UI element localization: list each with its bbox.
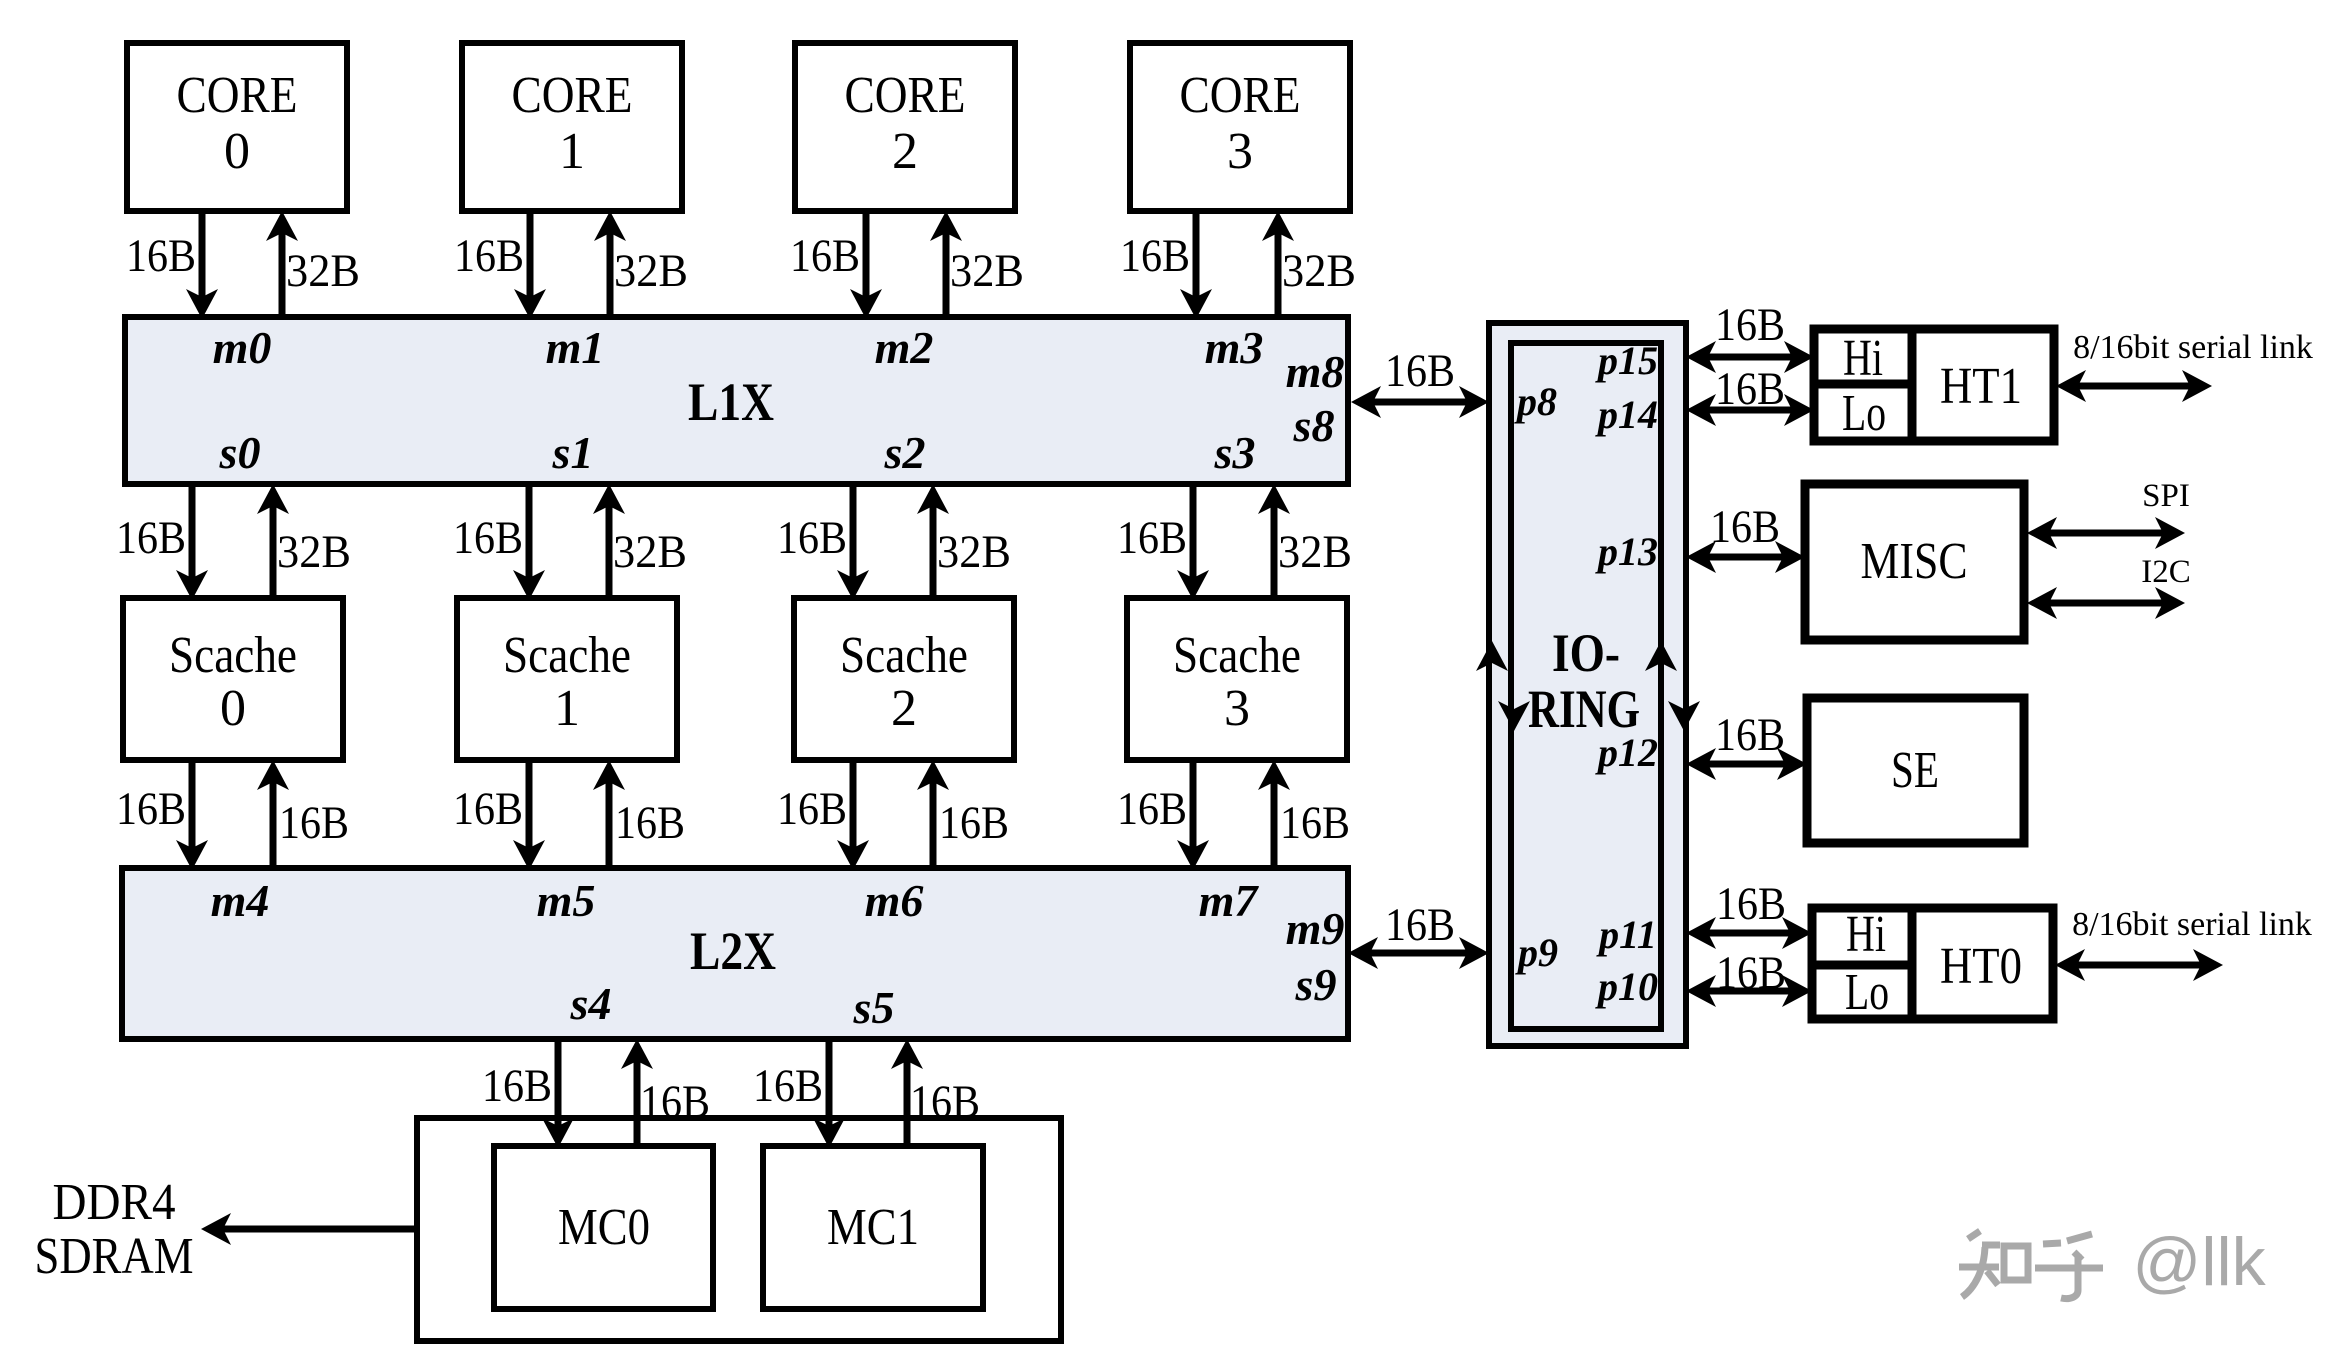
svg-text:Scache: Scache	[840, 627, 968, 684]
wire Scache0 to L2X 16B down	[189, 760, 196, 850]
svg-text:32B: 32B	[277, 526, 351, 578]
svg-text:CORE: CORE	[512, 67, 633, 124]
svg-text:L1X: L1X	[688, 372, 774, 432]
block SE	[1807, 698, 2024, 843]
svg-text:m5: m5	[537, 875, 596, 926]
svg-text:Scache: Scache	[1173, 627, 1301, 684]
block Scache 2	[794, 598, 1014, 760]
svg-text:m2: m2	[875, 322, 934, 373]
block Scache 0	[123, 598, 343, 760]
svg-text:16B: 16B	[1716, 947, 1786, 999]
wire HT0 serial link	[2075, 962, 2203, 969]
svg-text:s2: s2	[884, 427, 926, 478]
svg-text:16B: 16B	[116, 783, 186, 835]
svg-text:p9: p9	[1515, 930, 1558, 975]
block MC1	[763, 1146, 983, 1309]
svg-text:s9: s9	[1295, 959, 1337, 1010]
svg-text:HT1: HT1	[1940, 358, 2022, 415]
svg-text:16B: 16B	[116, 512, 186, 564]
svg-text:16B: 16B	[453, 512, 523, 564]
svg-text:3: 3	[1227, 123, 1253, 180]
svg-text:MISC: MISC	[1861, 533, 1968, 590]
svg-text:32B: 32B	[613, 526, 687, 578]
wire L1X s3 to Scache3 16B down	[1190, 484, 1197, 580]
svg-text:16B: 16B	[1385, 899, 1455, 951]
svg-text:IO-: IO-	[1552, 623, 1620, 683]
svg-text:Hi: Hi	[1846, 906, 1886, 963]
wire L1X to CORE0 32B up	[279, 231, 286, 317]
svg-text:16B: 16B	[1710, 501, 1780, 553]
wire IO-RING p10 to HT0 Lo 16B	[1706, 988, 1792, 995]
block CORE 0	[127, 43, 347, 211]
ring arrow down inner-left	[1498, 701, 1530, 731]
wire L1X to CORE3 32B up	[1275, 231, 1282, 317]
svg-text:p13: p13	[1595, 529, 1658, 574]
wire IO-RING p11 to HT0 Hi 16B	[1706, 930, 1792, 937]
ring arrow up left	[1476, 641, 1508, 671]
wire CORE0 to L1X 16B down	[199, 211, 206, 299]
svg-text:2: 2	[891, 680, 917, 737]
svg-text:16B: 16B	[777, 512, 847, 564]
wire Scache3 to L1X 32B up	[1271, 504, 1278, 598]
svg-text:@llk: @llk	[2132, 1224, 2266, 1300]
svg-text:SE: SE	[1891, 742, 1939, 799]
wire IO-RING p12 to SE 16B	[1706, 761, 1787, 768]
svg-text:CORE: CORE	[1180, 67, 1301, 124]
wire L1X m8/s8 to IO-RING p8 16B	[1371, 399, 1469, 406]
svg-text:16B: 16B	[753, 1060, 823, 1112]
block IO-RING inner	[1511, 343, 1661, 1029]
block MC0	[494, 1146, 713, 1309]
svg-text:16B: 16B	[1715, 299, 1785, 351]
svg-text:s8: s8	[1293, 400, 1335, 451]
wire L2X to Scache2 16B up	[930, 780, 937, 868]
svg-text:m9: m9	[1286, 903, 1345, 954]
svg-text:p15: p15	[1595, 338, 1658, 383]
svg-text:16B: 16B	[777, 783, 847, 835]
svg-text:16B: 16B	[453, 783, 523, 835]
wire Scache0 to L1X 32B up	[270, 504, 277, 598]
svg-text:HT0: HT0	[1940, 938, 2022, 995]
block IO-RING outer	[1489, 323, 1686, 1046]
wire L2X to Scache0 16B up	[270, 780, 277, 868]
crossbar L2X	[122, 868, 1348, 1039]
svg-text:16B: 16B	[790, 230, 860, 282]
svg-text:Hi: Hi	[1843, 330, 1883, 387]
svg-text:32B: 32B	[950, 245, 1024, 297]
svg-text:32B: 32B	[614, 245, 688, 297]
svg-text:s5: s5	[853, 982, 895, 1033]
svg-text:16B: 16B	[1716, 878, 1786, 930]
svg-text:16B: 16B	[1280, 797, 1350, 849]
svg-text:p12: p12	[1595, 730, 1658, 775]
svg-text:m8: m8	[1286, 346, 1345, 397]
svg-text:3: 3	[1224, 680, 1250, 737]
wire Scache1 to L2X 16B down	[526, 760, 533, 850]
svg-text:16B: 16B	[1715, 363, 1785, 415]
svg-text:8/16bit serial link: 8/16bit serial link	[2072, 906, 2312, 943]
wire IO-RING p13 to MISC 16B	[1706, 554, 1785, 561]
wire L2X to Scache3 16B up	[1271, 780, 1278, 868]
wire L1X s0 to Scache0 16B down	[189, 484, 196, 580]
wire L1X s1 to Scache1 16B down	[526, 484, 533, 580]
wire HT1 serial link	[2076, 383, 2192, 390]
svg-text:16B: 16B	[1715, 709, 1785, 761]
wire SPI	[2047, 530, 2165, 537]
wire L1X to CORE2 32B up	[943, 231, 950, 317]
svg-text:16B: 16B	[279, 797, 349, 849]
svg-text:p11: p11	[1596, 912, 1657, 957]
svg-text:16B: 16B	[454, 230, 524, 282]
wire Scache3 to L2X 16B down	[1190, 760, 1197, 850]
svg-text:CORE: CORE	[177, 67, 298, 124]
svg-text:s4: s4	[570, 978, 612, 1029]
svg-text:p8: p8	[1514, 379, 1557, 424]
svg-text:16B: 16B	[1117, 512, 1187, 564]
wire L1X to CORE1 32B up	[607, 231, 614, 317]
svg-text:16B: 16B	[1385, 345, 1455, 397]
svg-text:1: 1	[559, 123, 585, 180]
svg-text:CORE: CORE	[845, 67, 966, 124]
svg-text:32B: 32B	[286, 245, 360, 297]
svg-text:Scache: Scache	[169, 627, 297, 684]
svg-text:Lo: Lo	[1842, 385, 1886, 442]
svg-text:MC0: MC0	[558, 1199, 650, 1256]
block Scache 1	[457, 598, 677, 760]
block Scache 3	[1127, 598, 1347, 760]
svg-text:p10: p10	[1595, 964, 1658, 1009]
block HT0	[1812, 908, 2053, 1019]
wire IO-RING p15 to HT1 Hi 16B	[1706, 354, 1794, 361]
svg-text:0: 0	[220, 680, 246, 737]
block CORE 3	[1130, 43, 1350, 211]
svg-text:8/16bit serial link: 8/16bit serial link	[2073, 329, 2313, 366]
block MISC	[1805, 484, 2024, 640]
wire I2C	[2047, 600, 2165, 607]
wire CORE3 to L1X 16B down	[1193, 211, 1200, 299]
wire IO-RING p14 to HT1 Lo 16B	[1706, 407, 1794, 414]
svg-text:16B: 16B	[615, 797, 685, 849]
ring arrow up inner-right	[1645, 641, 1677, 671]
wire to DDR4 SDRAM	[221, 1226, 417, 1233]
svg-text:16B: 16B	[1117, 783, 1187, 835]
wire Scache1 to L1X 32B up	[606, 504, 613, 598]
svg-text:m0: m0	[213, 322, 272, 373]
svg-text:16B: 16B	[939, 797, 1009, 849]
svg-text:16B: 16B	[1120, 230, 1190, 282]
watermark zhihu @llk	[1959, 1231, 2103, 1299]
svg-text:0: 0	[224, 123, 250, 180]
svg-text:m4: m4	[211, 875, 270, 926]
svg-text:32B: 32B	[937, 526, 1011, 578]
svg-text:2: 2	[892, 123, 918, 180]
wire L1X s2 to Scache2 16B down	[850, 484, 857, 580]
svg-text:16B: 16B	[910, 1076, 980, 1128]
svg-text:32B: 32B	[1278, 526, 1352, 578]
svg-text:MC1: MC1	[827, 1199, 919, 1256]
wire Scache2 to L2X 16B down	[850, 760, 857, 850]
wire Scache2 to L1X 32B up	[930, 504, 937, 598]
svg-text:m3: m3	[1205, 322, 1264, 373]
ring arrow down right	[1668, 701, 1700, 731]
svg-text:s1: s1	[552, 427, 594, 478]
svg-text:I2C: I2C	[2141, 554, 2191, 590]
svg-text:16B: 16B	[640, 1076, 710, 1128]
block CORE 1	[462, 43, 682, 211]
wire L2X s4 to MC0 16B down	[555, 1039, 562, 1128]
block CORE 2	[795, 43, 1015, 211]
svg-text:SDRAM: SDRAM	[35, 1228, 194, 1285]
block HT1	[1814, 329, 2054, 441]
svg-text:s3: s3	[1214, 427, 1256, 478]
svg-text:DDR4: DDR4	[53, 1174, 176, 1231]
wire CORE1 to L1X 16B down	[527, 211, 534, 299]
svg-text:p14: p14	[1595, 392, 1658, 437]
svg-text:16B: 16B	[126, 230, 196, 282]
svg-text:SPI: SPI	[2142, 478, 2190, 514]
svg-text:16B: 16B	[482, 1060, 552, 1112]
svg-text:Scache: Scache	[503, 627, 631, 684]
wire MC0 to L2X 16B up	[634, 1059, 641, 1146]
crossbar L1X	[125, 317, 1348, 484]
block memory-controller group	[417, 1118, 1061, 1341]
wire CORE2 to L1X 16B down	[863, 211, 870, 299]
svg-text:m1: m1	[546, 322, 605, 373]
wire L2X to Scache1 16B up	[606, 780, 613, 868]
wire MC1 to L2X 16B up	[904, 1059, 911, 1146]
svg-text:1: 1	[554, 680, 580, 737]
svg-text:m6: m6	[865, 875, 924, 926]
svg-text:Lo: Lo	[1845, 964, 1889, 1021]
wire L2X m9/s9 to IO-RING p9 16B	[1368, 950, 1469, 957]
svg-text:m7: m7	[1199, 875, 1260, 926]
svg-text:L2X: L2X	[690, 921, 776, 981]
svg-text:s0: s0	[219, 427, 261, 478]
wire L2X s5 to MC1 16B down	[826, 1039, 833, 1128]
svg-text:32B: 32B	[1282, 245, 1356, 297]
